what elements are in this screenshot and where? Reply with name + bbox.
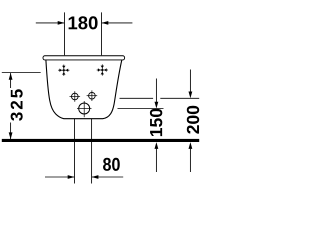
bidet rim — [43, 56, 125, 60]
dimension 200 label — [187, 106, 199, 134]
mounting hole cross right — [97, 64, 108, 75]
dimension 200 line above with down arrow — [189, 70, 193, 99]
dimension 80 label — [103, 158, 120, 171]
drain hole circle — [77, 101, 92, 117]
floor line — [2, 139, 199, 142]
mounting hole cross left — [58, 65, 69, 76]
tap hole circle right — [87, 90, 98, 101]
dimension 150 line below floor with up arrow — [155, 142, 159, 172]
dimension 80 extension line left — [74, 119, 76, 184]
dimension 80 extension line right — [91, 119, 93, 184]
dimension 325 line upper with up arrow — [9, 73, 13, 88]
dimension 200 line below floor with up arrow — [189, 142, 193, 172]
dimension 325 line lower with down arrow — [9, 123, 13, 140]
dimension 80 arrow right with tail — [92, 175, 124, 179]
lower reference line at 150 height — [118, 108, 164, 110]
dimension 325 extension line — [2, 72, 41, 74]
dimension 325 label — [11, 89, 23, 121]
tap hole circle left — [70, 91, 81, 102]
bidet body outline — [46, 60, 122, 119]
dimension 80 arrow left — [45, 175, 75, 179]
dimension 180 label — [69, 16, 98, 29]
upper reference line at 200 height — [120, 97, 154, 99]
dimension 180 extension line right — [101, 12, 103, 55]
dimension 150 line above with down arrow — [155, 79, 159, 109]
dimension 180 extension line left — [64, 12, 66, 55]
dimension 180 arrow right — [102, 21, 133, 25]
dimension 180 arrow left — [36, 21, 65, 25]
dimension 150 label — [150, 109, 162, 136]
